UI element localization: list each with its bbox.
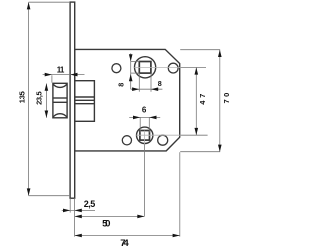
svg-text:2,5: 2,5 [84, 199, 96, 209]
svg-text:50: 50 [102, 218, 110, 229]
svg-text:11: 11 [57, 65, 65, 74]
svg-text:74: 74 [120, 238, 129, 247]
svg-text:8: 8 [158, 79, 162, 88]
svg-text:8: 8 [116, 83, 125, 87]
svg-text:6: 6 [142, 106, 147, 115]
svg-text:135: 135 [18, 91, 27, 103]
svg-text:23,5: 23,5 [34, 91, 43, 105]
